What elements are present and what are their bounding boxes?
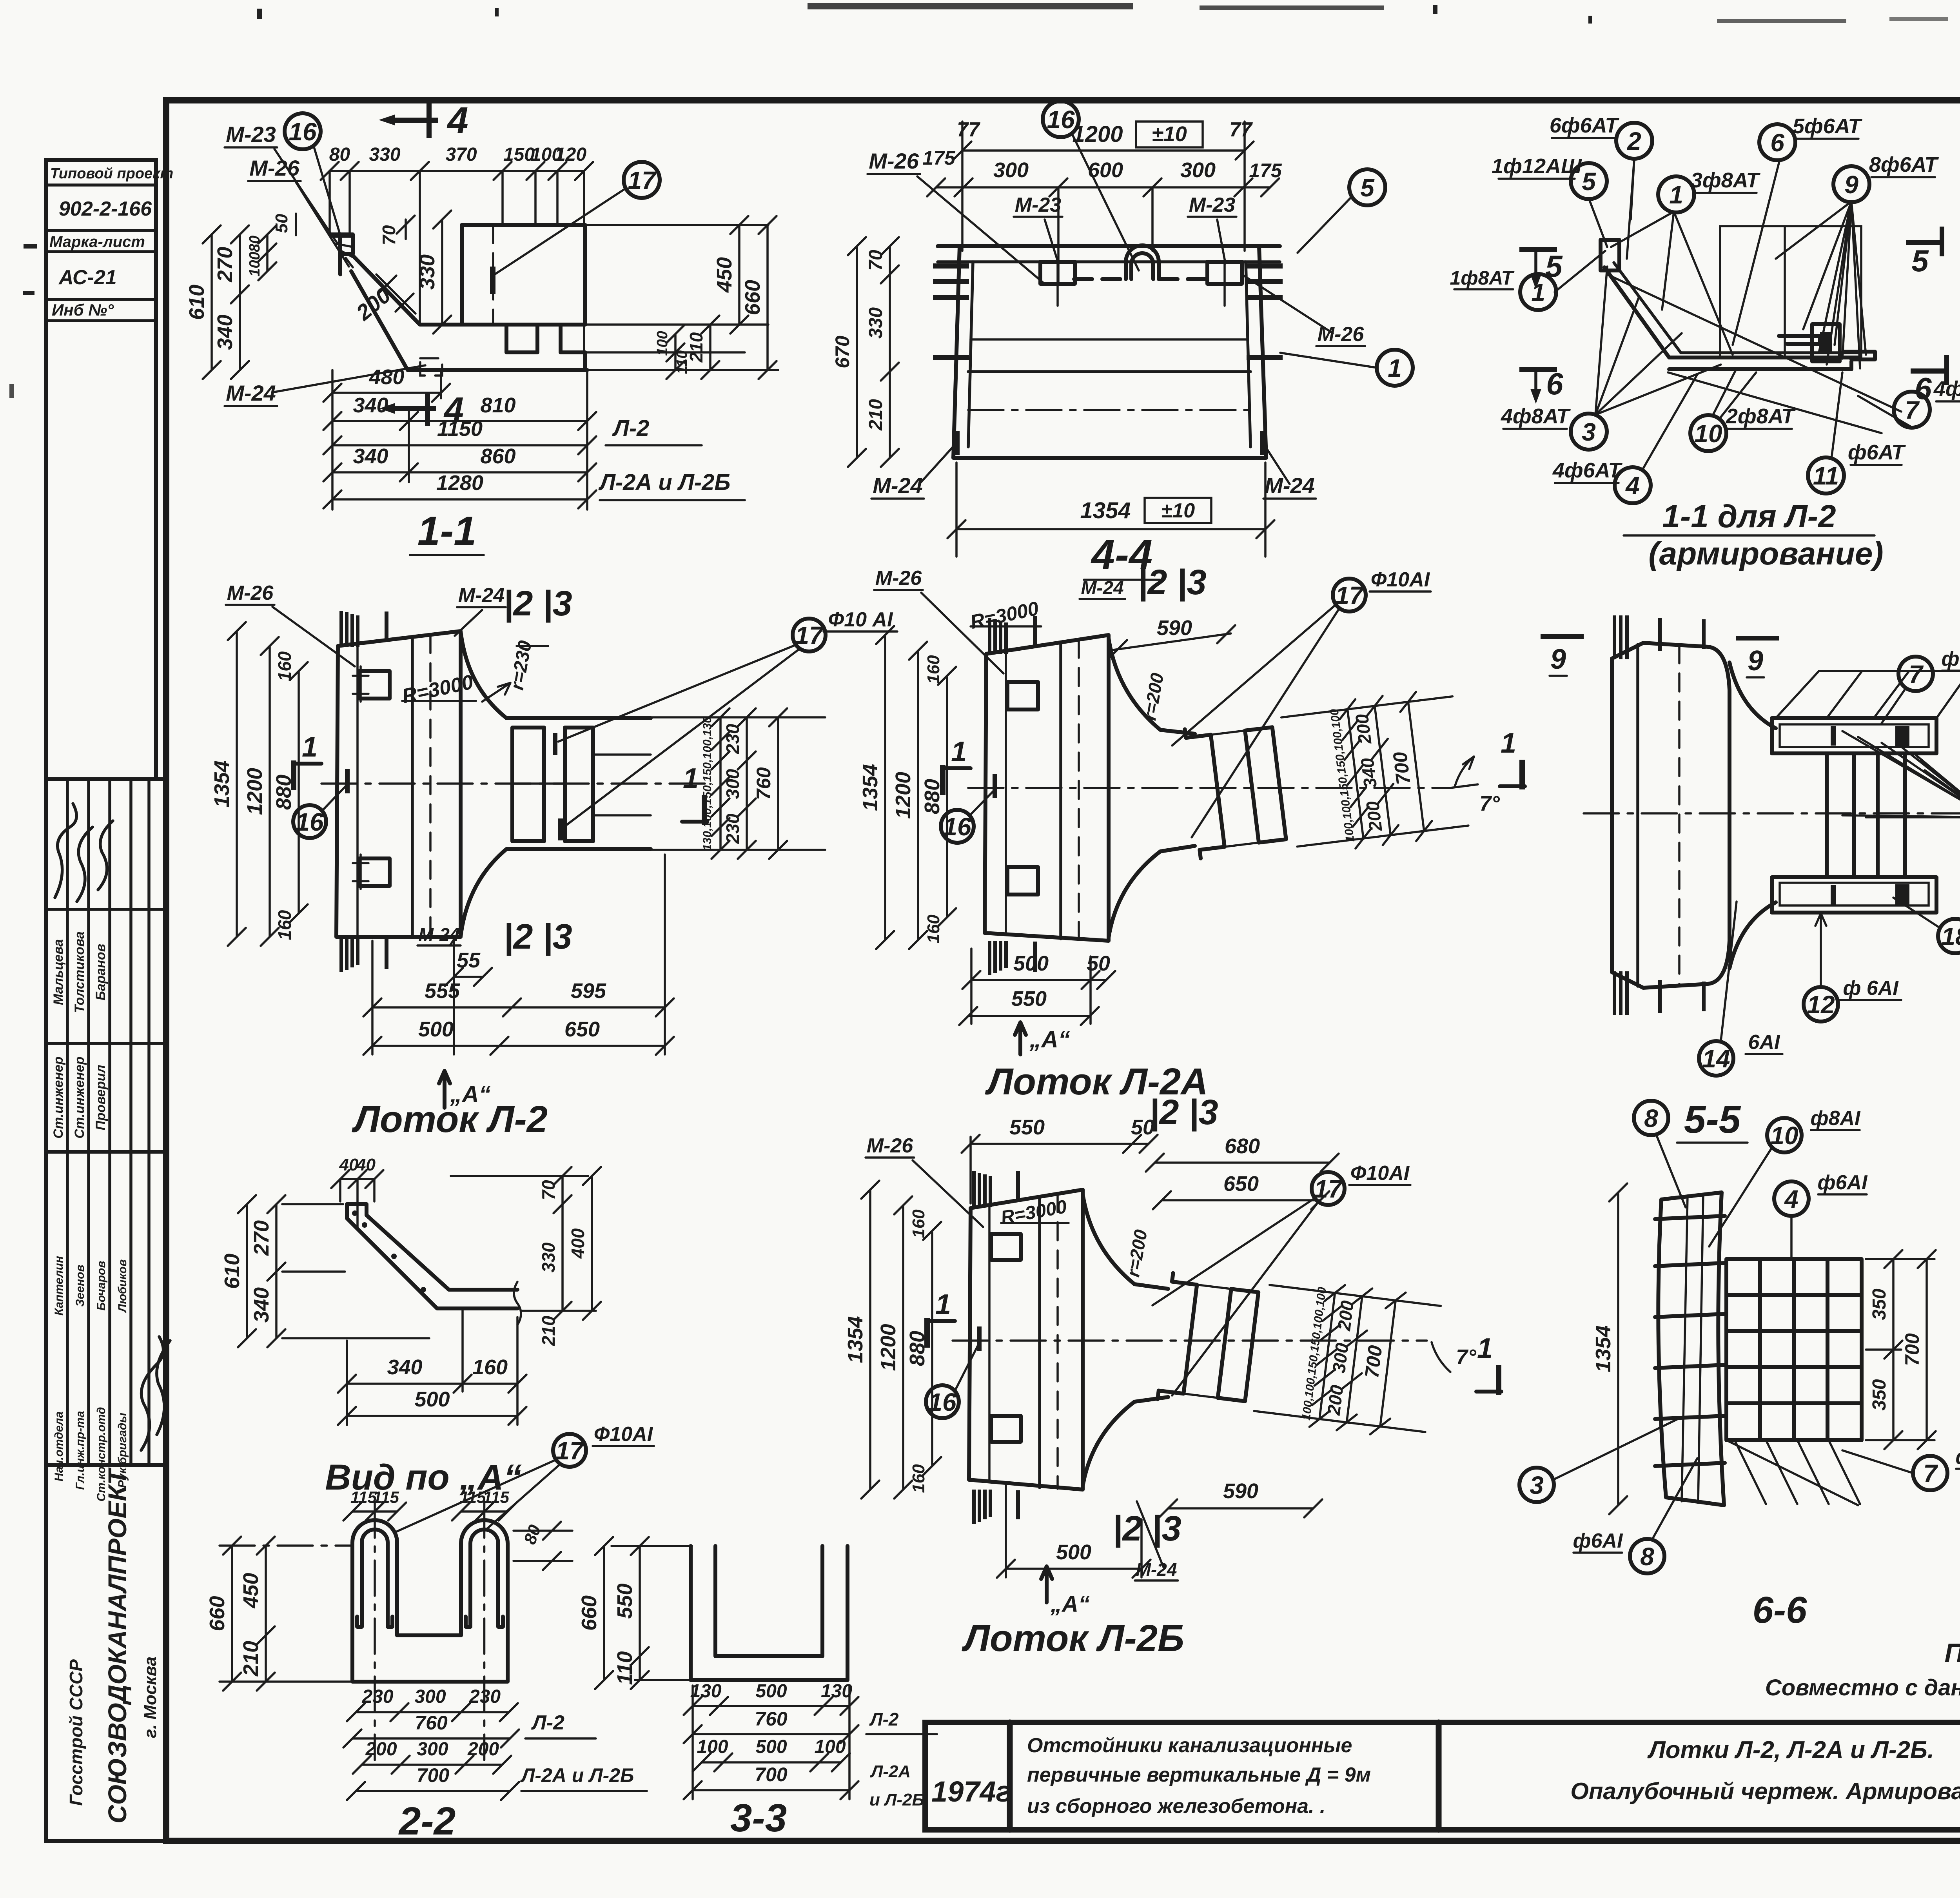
svg-text:6-6: 6-6 — [1753, 1589, 1807, 1631]
svg-text:500: 500 — [1056, 1541, 1091, 1564]
svg-text:1: 1 — [1388, 354, 1402, 382]
svg-text:9: 9 — [1844, 171, 1858, 199]
plan Lotok L-2 — [210, 582, 897, 1140]
svg-text:200: 200 — [1362, 800, 1386, 833]
4-4 bottom dim 1354 pm10 — [956, 528, 1265, 530]
callout circle 5 with label — [1571, 163, 1607, 199]
section 3-3 — [577, 1537, 937, 1840]
svg-text:Каптелин: Каптелин — [53, 1256, 65, 1316]
svg-text:330: 330 — [866, 307, 886, 339]
callout circle 3 — [1571, 414, 1607, 450]
svg-text:Л-2: Л-2 — [531, 1711, 564, 1734]
svg-text:Гл.инж.пр-та: Гл.инж.пр-та — [74, 1411, 87, 1490]
svg-text:М-26: М-26 — [227, 582, 274, 604]
svg-text:Проверил: Проверил — [93, 1065, 108, 1130]
svg-text:Любиков: Любиков — [116, 1259, 129, 1313]
section 6-6 — [1519, 1101, 1960, 1631]
L-2B section marker 1 left — [924, 1318, 930, 1348]
6-6 shelf grid — [1726, 1259, 1862, 1440]
svg-text:160: 160 — [909, 1209, 928, 1238]
3-3 left dims 550 110 660 — [639, 1546, 641, 1680]
svg-text:7°: 7° — [1479, 792, 1500, 815]
svg-text:5: 5 — [1545, 249, 1563, 283]
L-2A callout 16 — [941, 810, 974, 843]
svg-text:300: 300 — [993, 158, 1029, 182]
svg-text:70: 70 — [538, 1180, 559, 1200]
L-2A connector plates — [1007, 682, 1038, 709]
svg-text:Ф10 АI: Ф10 АI — [828, 608, 893, 631]
2-2 left dims 450 210 660 — [265, 1546, 267, 1682]
svg-text:330: 330 — [416, 254, 439, 290]
L-2 right fan dims — [643, 716, 825, 719]
svg-text:ф6АI: ф6АI — [1818, 1171, 1868, 1194]
callout circle 7 — [1894, 392, 1930, 428]
svg-text:М-26: М-26 — [875, 567, 922, 590]
svg-text:М-23: М-23 — [226, 122, 276, 147]
svg-text:810: 810 — [480, 394, 515, 417]
svg-text:±10: ±10 — [1161, 499, 1195, 522]
cage sloped bars — [1604, 267, 1859, 357]
4-4 connector plates M-23 — [1040, 262, 1075, 284]
svg-text:700: 700 — [1361, 1344, 1387, 1379]
L-2 left dim 1354 — [236, 631, 238, 937]
svg-text:7: 7 — [1923, 1459, 1938, 1488]
section 1-1 wall block — [462, 225, 585, 325]
svg-text:8: 8 — [1644, 1104, 1658, 1132]
svg-text:1: 1 — [683, 763, 699, 794]
section 1-1 dim 330 mid — [441, 220, 443, 325]
svg-text:Зеенов: Зеенов — [74, 1265, 87, 1306]
svg-text:3: 3 — [1582, 418, 1596, 446]
svg-text:175: 175 — [1249, 160, 1282, 181]
callout circle 5 of 4-4 — [1349, 169, 1385, 205]
svg-text:130,100,150,150,100,130: 130,100,150,150,100,130 — [701, 717, 714, 851]
callout circle 4 — [1615, 467, 1651, 503]
svg-text:610: 610 — [185, 285, 209, 320]
svg-text:700: 700 — [1389, 751, 1415, 786]
svg-text:2ф8АТ: 2ф8АТ — [1726, 405, 1796, 428]
L-2 tongue slots — [512, 728, 544, 841]
svg-text:700: 700 — [1901, 1333, 1923, 1366]
sidebar stray marks — [24, 244, 37, 249]
svg-text:330: 330 — [538, 1242, 559, 1272]
section 4-4 view — [831, 101, 1413, 580]
L-2B bottom dims 590 500 — [1168, 1507, 1313, 1510]
cage bottom bar hooks — [1669, 361, 1851, 369]
svg-text:5: 5 — [1360, 174, 1375, 202]
reinforcement view 1-1 for L-2 — [1450, 114, 1960, 572]
leader lines left circles — [1589, 198, 1607, 247]
svg-text:760: 760 — [753, 767, 775, 800]
svg-text:8ф6АТ: 8ф6АТ — [1869, 153, 1939, 176]
svg-text:5-5: 5-5 — [1684, 1098, 1741, 1141]
svg-text:115: 115 — [373, 1488, 399, 1506]
svg-text:77: 77 — [1229, 118, 1253, 141]
section 1-1 left dims 270 340 — [239, 234, 241, 370]
plan Lotok L-2A — [858, 563, 1525, 1132]
svg-text:650: 650 — [564, 1018, 600, 1041]
L-2B neck curves — [1083, 1194, 1168, 1289]
leaders 10 11 7 — [1712, 368, 1737, 416]
svg-text:М-26: М-26 — [249, 156, 299, 180]
L-2 section marker 1 left — [291, 760, 296, 790]
svg-text:500: 500 — [755, 1737, 787, 1757]
L-2 base plate — [336, 631, 461, 937]
svg-text:550: 550 — [1009, 1116, 1045, 1139]
leader from circle 4 — [1642, 374, 1697, 470]
svg-text:160: 160 — [472, 1355, 508, 1379]
L-2B fan dims — [1270, 1285, 1441, 1306]
svg-text:Баранов: Баранов — [93, 944, 108, 1001]
svg-text:595: 595 — [571, 979, 606, 1003]
svg-text:4ф8АТ: 4ф8АТ — [1501, 405, 1571, 428]
svg-text:Ф10АI: Ф10АI — [1371, 568, 1430, 591]
svg-text:Бочаров: Бочаров — [95, 1261, 108, 1310]
svg-text:160: 160 — [274, 651, 295, 681]
6-6 wall rungs — [1655, 1216, 1725, 1219]
svg-text:10: 10 — [1694, 419, 1722, 448]
svg-text:70: 70 — [379, 225, 399, 245]
svg-text:„А“: „А“ — [1050, 1591, 1090, 1617]
corner left dims 270 340 610 — [275, 1204, 278, 1338]
4-4 side anchor bars — [933, 263, 969, 269]
svg-text:Типовой проект: Типовой проект — [50, 165, 173, 182]
svg-text:М-24: М-24 — [1265, 473, 1315, 498]
svg-text:|2 |3: |2 |3 — [1138, 563, 1206, 602]
svg-text:М-24: М-24 — [458, 584, 505, 607]
svg-text:660: 660 — [577, 1595, 601, 1631]
svg-text:760: 760 — [755, 1708, 788, 1730]
svg-text:ф6АI: ф6АI — [1956, 1446, 1960, 1468]
section 2-2 — [205, 1488, 647, 1843]
5-5 neck curves — [1730, 662, 1776, 728]
L-2 view A arrow — [439, 1071, 450, 1108]
svg-text:120: 120 — [555, 144, 586, 165]
svg-text:610: 610 — [220, 1254, 244, 1289]
svg-text:Нач.отдела: Нач.отдела — [53, 1412, 65, 1482]
svg-text:Л-2А и Л-2Б: Л-2А и Л-2Б — [520, 1764, 634, 1786]
svg-text:300: 300 — [1328, 1342, 1352, 1374]
plan Lotok L-2B — [844, 1116, 1501, 1659]
svg-text:340: 340 — [353, 445, 388, 468]
section 1-1 bottom dim 1280 L-2A L-2B — [332, 498, 587, 501]
svg-text:М-26: М-26 — [867, 1134, 914, 1157]
svg-text:50: 50 — [1131, 1116, 1154, 1139]
corner break wavy line — [514, 1282, 521, 1325]
6-6 wall band — [1658, 1192, 1724, 1505]
svg-text:150: 150 — [503, 144, 535, 165]
svg-text:80: 80 — [329, 144, 350, 165]
svg-text:М-24: М-24 — [1081, 578, 1123, 599]
5-5 post hook details — [1895, 726, 1909, 746]
svg-text:330: 330 — [369, 144, 400, 165]
svg-text:230: 230 — [469, 1686, 501, 1707]
svg-text:130: 130 — [821, 1681, 852, 1702]
svg-text:2: 2 — [1627, 127, 1641, 155]
5-5 markers 9 — [1541, 634, 1584, 639]
L-2B tilted tongue — [1156, 1264, 1442, 1441]
2-2 bottom dims — [356, 1711, 509, 1713]
corner bottom dims 340 160 500 — [347, 1383, 517, 1385]
svg-text:200: 200 — [467, 1739, 499, 1760]
L-2A bottom dims 500 50 550 — [971, 979, 1106, 981]
4-4 dashed slab line — [1074, 277, 1211, 281]
4-4 dims 175 300 600 300 175 — [936, 186, 1270, 189]
L-2B section marker 1 right — [1496, 1365, 1501, 1395]
svg-text:4ф6АТ: 4ф6АТ — [1552, 459, 1622, 482]
svg-text:500: 500 — [1013, 952, 1049, 975]
svg-text:4: 4 — [446, 100, 468, 142]
section markers 5 6 around cage — [1519, 247, 1557, 252]
svg-text:400: 400 — [568, 1228, 588, 1259]
corner dots — [352, 1210, 358, 1216]
svg-text:Л-2: Л-2 — [869, 1709, 899, 1729]
svg-text:590: 590 — [1223, 1479, 1258, 1503]
svg-text:340: 340 — [213, 314, 237, 350]
svg-text:700: 700 — [755, 1764, 788, 1785]
svg-text:100: 100 — [247, 252, 263, 276]
callout 17 of 2-2 — [553, 1434, 586, 1467]
svg-text:80: 80 — [247, 236, 263, 252]
svg-text:1354: 1354 — [844, 1316, 867, 1363]
4-4 dim 1200 pm 10 — [962, 149, 1245, 152]
svg-text:4: 4 — [1784, 1185, 1798, 1213]
section 1-1 right dims 110 100 210 450 660 — [674, 334, 677, 370]
svg-text:110: 110 — [613, 1651, 637, 1685]
svg-text:1354: 1354 — [1080, 498, 1131, 523]
L-2 connector plates — [359, 671, 390, 699]
svg-text:|2 |3: |2 |3 — [503, 917, 572, 956]
svg-text:8: 8 — [1640, 1542, 1654, 1571]
L-2 left dims 1200 880 160 — [269, 646, 271, 937]
svg-text:±10: ±10 — [1152, 122, 1187, 146]
svg-text:1280: 1280 — [436, 471, 483, 495]
svg-text:16: 16 — [296, 808, 324, 836]
L-2A neck curves — [1109, 638, 1195, 734]
2-2 bench outline — [352, 1631, 508, 1682]
sidebar lower table — [46, 1152, 170, 1502]
section 1-1 bottom dim 1150 L-2 — [332, 444, 587, 446]
svg-text:660: 660 — [741, 280, 764, 315]
callout circle 2 with label — [1616, 123, 1652, 159]
L-2B callout 16 — [926, 1385, 959, 1418]
svg-text:1974г: 1974г — [931, 1775, 1011, 1808]
2-2 reference lines — [220, 1544, 353, 1547]
svg-text:(армирование): (армирование) — [1648, 536, 1883, 572]
2-2 right stirrup — [461, 1520, 508, 1631]
svg-text:Толстикова: Толстикова — [72, 931, 87, 1013]
svg-text:270: 270 — [213, 247, 237, 282]
svg-text:Опалубочный чертеж. Армирова: Опалубочный чертеж. Армирование. — [1570, 1778, 1960, 1804]
svg-text:ф8АI: ф8АI — [1811, 1107, 1861, 1130]
L-2B view A arrow and M-24 — [1041, 1566, 1052, 1602]
svg-text:|2 |3: |2 |3 — [503, 584, 572, 623]
section 1-1 left dims 80 100 — [266, 234, 269, 271]
5-5 top hatch parallelogram — [1776, 671, 1960, 718]
svg-text:450: 450 — [239, 1573, 263, 1608]
svg-text:160: 160 — [274, 910, 295, 940]
cage hook cluster — [1812, 324, 1840, 361]
section 1-1 top dimension row 80-330-370-150-100-120 — [330, 170, 584, 172]
sidebar signature table — [46, 779, 167, 1152]
svg-text:880: 880 — [920, 779, 944, 814]
section 1-1 view — [185, 100, 778, 555]
svg-text:340: 340 — [250, 1287, 273, 1323]
svg-text:902-2-166: 902-2-166 — [59, 198, 152, 220]
svg-text:18: 18 — [1941, 922, 1960, 951]
svg-text:480: 480 — [368, 365, 404, 389]
svg-text:50: 50 — [272, 214, 291, 233]
svg-text:1: 1 — [951, 736, 967, 768]
corner outline — [347, 1204, 517, 1308]
svg-text:3ф8АТ: 3ф8АТ — [1691, 169, 1760, 192]
corner top dims 40 40 — [340, 1178, 374, 1180]
svg-text:6: 6 — [1546, 367, 1563, 401]
svg-text:6АI: 6АI — [1748, 1031, 1780, 1054]
section 1-1 bottom dims 340 860 — [332, 471, 587, 474]
svg-text:Совместно с данным см. лис: Совместно с данным см. листы АС-4, 22,5. — [1765, 1675, 1960, 1700]
svg-text:100: 100 — [697, 1737, 728, 1757]
svg-text:Марка-лист: Марка-лист — [49, 233, 145, 250]
svg-text:660: 660 — [205, 1596, 229, 1631]
L-2B top dims 550 50 680 650 — [971, 1143, 1149, 1145]
svg-text:ф 6АI: ф 6АI — [1843, 977, 1899, 1000]
L-2 centre line — [321, 782, 711, 785]
2-2 left stirrup — [352, 1520, 397, 1631]
svg-text:Ст.инженер: Ст.инженер — [51, 1056, 66, 1138]
svg-text:Лоток Л-2: Лоток Л-2 — [352, 1098, 548, 1140]
L-2B left dims — [869, 1190, 871, 1490]
svg-text:1200: 1200 — [891, 772, 915, 819]
svg-text:760: 760 — [415, 1712, 448, 1734]
svg-text:16: 16 — [289, 118, 317, 146]
leader from circle 6 — [1733, 160, 1780, 345]
svg-text:670: 670 — [831, 336, 853, 368]
L-2A tilted tongue — [1184, 688, 1470, 867]
svg-text:100: 100 — [814, 1737, 846, 1757]
section 5-5 — [1541, 615, 1960, 1143]
svg-text:880: 880 — [906, 1331, 929, 1366]
section 1-1 profile outline — [330, 234, 353, 254]
sidebar organisation block — [46, 1465, 167, 1841]
callout circle 1 top — [1658, 176, 1694, 212]
callout circle 11 — [1808, 457, 1844, 494]
svg-text:1200: 1200 — [877, 1324, 900, 1371]
svg-text:200: 200 — [1351, 713, 1375, 746]
L-2A section marker 1 right — [1519, 760, 1525, 789]
svg-text:ф6АТ: ф6АТ — [1848, 441, 1906, 464]
svg-text:500: 500 — [755, 1681, 787, 1702]
L-2B connector plates — [991, 1234, 1021, 1260]
svg-text:40: 40 — [339, 1155, 359, 1174]
svg-text:из сборного железобетона. .: из сборного железобетона. . — [1027, 1795, 1325, 1818]
svg-text:Примечание:: Примечание: — [1945, 1638, 1960, 1668]
svg-text:6: 6 — [1915, 371, 1932, 406]
svg-text:1-1 для Л-2: 1-1 для Л-2 — [1662, 499, 1836, 534]
svg-text:350: 350 — [1869, 1288, 1890, 1320]
callout circle 9 — [1833, 166, 1869, 202]
svg-text:первичные вертикальные Д = 9м: первичные вертикальные Д = 9м — [1027, 1764, 1371, 1786]
svg-text:М-24: М-24 — [226, 381, 276, 405]
cage main rectangle — [1720, 226, 1861, 357]
section 1-1 slope dimension 200 — [376, 274, 416, 314]
svg-text:1200: 1200 — [1072, 122, 1123, 147]
svg-text:300: 300 — [1180, 158, 1216, 182]
svg-text:2-2: 2-2 — [398, 1799, 456, 1843]
svg-text:Л-2: Л-2 — [612, 416, 649, 441]
svg-text:1: 1 — [302, 731, 318, 763]
section marker 4 bottom — [395, 406, 436, 411]
svg-text:3: 3 — [1530, 1471, 1544, 1499]
svg-text:6: 6 — [1770, 129, 1784, 157]
sidebar stamp table top — [46, 160, 173, 779]
svg-text:СОЮЗВОДОКАНАЛПРОЕКТ: СОЮЗВОДОКАНАЛПРОЕКТ — [103, 1467, 132, 1824]
svg-text:6ф6АТ: 6ф6АТ — [1550, 114, 1619, 137]
5-5 callouts — [1898, 657, 1933, 691]
svg-text:130: 130 — [690, 1681, 721, 1702]
svg-text:ф6АI: ф6АI — [1942, 648, 1960, 670]
6-6 callouts — [1634, 1101, 1668, 1135]
section 1-1 bottom dim 480 — [332, 392, 441, 394]
L-2B base plate — [969, 1190, 1083, 1490]
svg-text:М-26: М-26 — [1318, 323, 1365, 346]
svg-text:160: 160 — [924, 915, 943, 944]
svg-text:1: 1 — [1669, 181, 1683, 209]
svg-text:Ф10АI: Ф10АI — [1350, 1162, 1410, 1185]
3-3 bottom dims — [693, 1705, 849, 1707]
svg-text:1ф8АТ: 1ф8АТ — [1450, 267, 1515, 289]
svg-text:9: 9 — [1550, 644, 1566, 675]
L-2A section marker 1 left — [940, 765, 946, 795]
svg-text:880: 880 — [272, 775, 296, 810]
svg-text:860: 860 — [480, 445, 515, 468]
5-5 leader fan circle 13 — [1842, 731, 1960, 817]
svg-text:5ф6АТ: 5ф6АТ — [1793, 114, 1862, 138]
callout circle 16 — [285, 113, 321, 149]
svg-text:1: 1 — [935, 1289, 951, 1320]
section marker 4 top — [395, 118, 438, 123]
L-2A view A arrow — [1015, 1022, 1026, 1054]
svg-text:270: 270 — [250, 1220, 273, 1256]
svg-text:700: 700 — [417, 1764, 450, 1786]
svg-text:160: 160 — [909, 1464, 928, 1493]
svg-text:5: 5 — [1582, 167, 1596, 196]
svg-text:590: 590 — [1157, 616, 1192, 640]
3-3 channel outline — [691, 1546, 848, 1680]
svg-text:1: 1 — [1501, 728, 1516, 759]
svg-text:210: 210 — [239, 1641, 263, 1677]
5-5 bracket posts — [1827, 753, 1854, 877]
5-5 wall — [1612, 643, 1730, 988]
svg-text:17: 17 — [628, 166, 657, 194]
L-2A callout 17 and label — [1333, 579, 1366, 611]
svg-text:450: 450 — [713, 257, 736, 293]
svg-text:40: 40 — [356, 1155, 376, 1174]
svg-text:70: 70 — [866, 250, 886, 271]
svg-text:200: 200 — [1323, 1384, 1347, 1417]
svg-text:Ст.инженер: Ст.инженер — [72, 1056, 87, 1138]
svg-text:200: 200 — [365, 1739, 397, 1760]
callout circle 1 left — [1520, 274, 1556, 310]
L-2 callout 16 — [293, 805, 326, 838]
svg-text:350: 350 — [1869, 1379, 1890, 1410]
callout circle 6 — [1759, 124, 1795, 160]
svg-text:Ф10АI: Ф10АI — [594, 1423, 653, 1446]
svg-text:370: 370 — [445, 144, 477, 165]
L-2A centre line — [968, 787, 1450, 789]
svg-text:Л-2А: Л-2А — [870, 1762, 911, 1781]
wide diagonal reference lines — [1607, 274, 1901, 412]
